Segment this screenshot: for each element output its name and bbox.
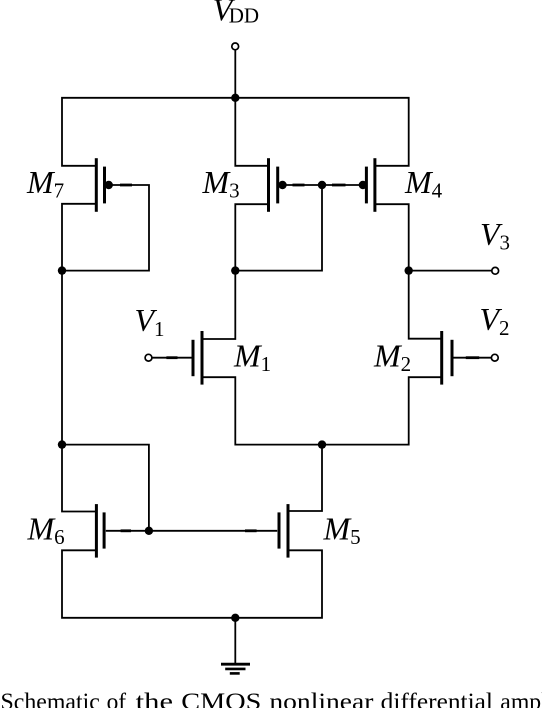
svg-text:Schematic: Schematic: [1, 689, 100, 708]
svg-text:amplif: amplif: [500, 689, 542, 708]
svg-text:differential: differential: [381, 689, 494, 708]
svg-text:of: of: [107, 689, 127, 708]
svg-text:CMOS: CMOS: [181, 689, 261, 708]
svg-text:nonlinear: nonlinear: [269, 689, 373, 708]
svg-text:DD: DD: [229, 4, 259, 28]
svg-text:the: the: [136, 689, 173, 708]
